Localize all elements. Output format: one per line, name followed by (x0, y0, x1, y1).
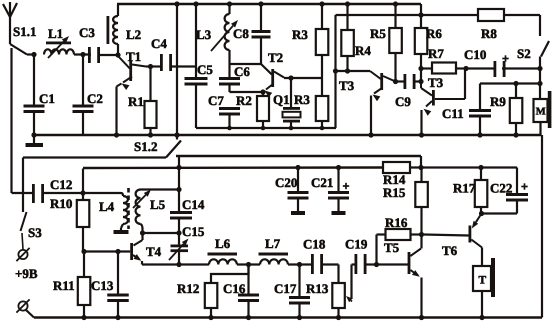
label L1 (48, 26, 63, 41)
capacitor C11 (469, 84, 491, 136)
label C15 (182, 224, 205, 239)
svg-text:C8: C8 (233, 26, 249, 41)
svg-text:Q1: Q1 (273, 92, 290, 107)
node R14/R15/rail A (418, 165, 423, 170)
capacitor C10 (polarized) (466, 55, 540, 77)
resistor R12 link (211, 265, 249, 284)
node C17 tap (297, 262, 302, 267)
wire C14 branch (178, 156, 180, 211)
node C15 bottom (176, 262, 181, 267)
capacitor C18 (311, 254, 339, 274)
svg-text:C18: C18 (303, 237, 326, 252)
svg-text:T: T (479, 275, 487, 287)
capacitor C14 (170, 211, 192, 233)
label C1 (39, 91, 55, 106)
svg-text:R16: R16 (385, 215, 408, 230)
wire bottom bus (34, 316, 542, 319)
label C6 (234, 64, 250, 79)
node T4 collector/L5 (140, 230, 145, 235)
label C4 (151, 36, 167, 51)
node supply/bus crossing (174, 132, 179, 137)
svg-text:M: M (536, 107, 546, 118)
wire rail B right (410, 166, 517, 168)
node C13 tap (115, 249, 120, 254)
svg-text:C9: C9 (395, 94, 411, 109)
resistor R8 (478, 9, 540, 36)
label C8 (233, 26, 249, 41)
inductor L1 (variable) (44, 36, 74, 58)
resistor R14 (383, 162, 410, 173)
transistor T2 (263, 69, 284, 97)
node R16 tap (374, 262, 379, 267)
label R6 (426, 26, 442, 41)
node T3b emitter on bus (419, 132, 424, 137)
node R10/R11 (81, 249, 86, 254)
resistor R13 (trimmer) (332, 265, 352, 318)
label R13 (306, 281, 329, 296)
label R9 (490, 94, 506, 109)
svg-text:C5: C5 (197, 62, 213, 77)
capacitor C12 (12, 184, 122, 203)
svg-text:L2: L2 (126, 27, 141, 42)
label Q1 (273, 92, 290, 107)
node R6/R7 (418, 66, 423, 71)
transistor T1 (117, 56, 147, 135)
node R3 top rail (319, 1, 324, 6)
svg-text:C20: C20 (275, 175, 297, 190)
switch S2 (541, 41, 549, 57)
svg-text:L4: L4 (99, 199, 115, 214)
wire oscillator rail B (83, 168, 383, 194)
label T2 (268, 50, 283, 65)
label T3 first (339, 78, 355, 93)
resistor R12 (205, 283, 218, 318)
label C14 (182, 197, 205, 212)
wire T3 second base (421, 82, 432, 96)
node C10 out (537, 66, 542, 71)
wire receiver supply vertical (174, 1, 179, 139)
label C17 (274, 281, 297, 296)
resistor R11 (78, 252, 91, 318)
node earphone bus (479, 315, 484, 320)
wire R13 wiper to C19 (352, 265, 358, 300)
svg-text:R7: R7 (428, 46, 444, 61)
svg-text:C6: C6 (234, 64, 250, 79)
resistor R16 (377, 229, 422, 265)
label +9B (15, 266, 38, 281)
capacitor C19 (355, 254, 409, 274)
node T3 collector / C9 (393, 79, 398, 84)
label R12 (177, 281, 199, 296)
inductor L7 (259, 253, 289, 265)
wire second rail (336, 15, 479, 128)
label C16 (223, 281, 246, 296)
svg-text:R2: R2 (236, 93, 252, 108)
label R1 (128, 94, 144, 109)
wire node to C14/C15 (143, 232, 180, 234)
svg-text:R5: R5 (370, 26, 386, 41)
resistor R1 (145, 67, 157, 136)
capacitor C20 (288, 168, 309, 216)
wire S1.1 alternate contact down to C12 (10, 48, 12, 193)
capacitor C13 (107, 252, 129, 318)
svg-text:T6: T6 (442, 243, 458, 258)
node ground bus left (31, 132, 36, 137)
node R1 on bus (148, 132, 153, 137)
label R17 (453, 181, 476, 196)
svg-text:L1: L1 (48, 26, 63, 41)
label L6 (215, 236, 231, 251)
node antenna/receiver input (31, 52, 36, 57)
capacitor C22 (polarized) (482, 168, 529, 214)
svg-text:S2: S2 (517, 46, 531, 61)
earphone T (473, 258, 495, 318)
node R13 bus (336, 315, 341, 320)
svg-text:T3: T3 (428, 75, 444, 90)
wire C6/C7 to T2 emitter link (230, 91, 264, 93)
svg-text:C1: C1 (39, 91, 55, 106)
svg-text:C11: C11 (442, 106, 464, 121)
node T5 collector/R15/R16 (419, 232, 424, 237)
transistor T3 (second) (422, 90, 466, 135)
label C10 (464, 47, 486, 62)
crystal Q1 (283, 78, 301, 128)
wire T4 base (84, 250, 130, 252)
svg-text:C12: C12 (50, 177, 72, 192)
svg-text:R8: R8 (481, 26, 497, 41)
node C9 / R6 / T3 base (418, 79, 423, 84)
capacitor C21 (polarized) (328, 168, 349, 216)
svg-text:R13: R13 (306, 281, 329, 296)
label R3 upper (292, 27, 308, 42)
label S3 (28, 225, 42, 240)
wire AF line (142, 263, 209, 265)
node R9 on bus (513, 132, 518, 137)
node C16 bus (246, 315, 251, 320)
capacitor C4 (160, 54, 196, 71)
node C20 tap (295, 165, 300, 170)
svg-text:C17: C17 (274, 281, 297, 296)
label R14 (383, 172, 406, 187)
node R17/C22 bottom (479, 211, 484, 216)
wire C5 branch from top rail (193, 1, 198, 77)
inductor L5 (variable) (133, 190, 179, 234)
resistor R4 (341, 1, 354, 71)
wire T2 collector (284, 77, 322, 79)
capacitor C15 (trimmer) (169, 233, 189, 265)
ground (upper bus) (26, 135, 44, 147)
terminal battery - (16, 299, 29, 312)
inductor L3 (variable) (211, 4, 238, 77)
wire upper ground bus (33, 134, 541, 137)
node R9 tap (513, 81, 518, 86)
capacitor C2 (73, 55, 94, 136)
inductor L4 (114, 193, 129, 234)
svg-text:C2: C2 (87, 91, 103, 106)
svg-text:C22: C22 (490, 181, 512, 196)
terminal battery + (16, 248, 29, 261)
svg-text:C19: C19 (345, 237, 368, 252)
inductor L6 (208, 253, 238, 265)
resistor R2 (257, 92, 269, 128)
resistor R15 (415, 168, 428, 235)
svg-text:T2: T2 (268, 50, 283, 65)
svg-text:S1.2: S1.2 (134, 139, 157, 154)
label C18 (303, 237, 326, 252)
svg-text:L5: L5 (150, 197, 166, 212)
node R4 base tap (345, 68, 350, 73)
node L3 top rail (227, 1, 232, 6)
label C5 (197, 62, 213, 77)
label L5 (150, 197, 166, 212)
node C14/C15 (176, 230, 181, 235)
label L4 (99, 199, 115, 214)
svg-text:+9B: +9B (15, 266, 38, 281)
svg-text:R12: R12 (177, 281, 199, 296)
wire L6-L7 (237, 263, 260, 265)
node C13 bus (115, 315, 120, 320)
svg-text:R17: R17 (453, 181, 476, 196)
svg-text:T1: T1 (126, 49, 141, 64)
node C8 top rail (258, 1, 263, 6)
node C17 bus (297, 315, 302, 320)
node T2 emitter (260, 89, 265, 94)
resistor R9 (510, 84, 523, 136)
label R2 (236, 93, 252, 108)
label T6 (442, 243, 458, 258)
resistor R5 (389, 1, 402, 81)
node R12 bus (208, 315, 213, 320)
label C19 (345, 237, 368, 252)
resistor R10 (77, 193, 90, 252)
svg-text:C7: C7 (208, 93, 224, 108)
svg-text:T3: T3 (339, 78, 355, 93)
antenna (3, 2, 17, 44)
node C11 on bus (477, 132, 482, 137)
label T4 (146, 244, 162, 259)
svg-text:L6: L6 (215, 236, 231, 251)
svg-text:C13: C13 (91, 278, 114, 293)
label M (536, 107, 546, 118)
label R15 (383, 185, 406, 200)
transistor T4 (130, 233, 142, 265)
label S2 (517, 46, 531, 61)
switch S1.1 arm (10, 44, 33, 55)
capacitor C7 (219, 107, 240, 128)
wire oscillator return (196, 126, 336, 131)
node L6/L7/R12/C16 (246, 262, 251, 267)
transformer core (127, 188, 130, 229)
capacitor C17 (289, 265, 310, 318)
label C3 (79, 25, 95, 40)
resistor R17 (475, 168, 488, 214)
capacitor C1 (24, 55, 45, 136)
svg-text:C14: C14 (182, 197, 205, 212)
transistor T3 (first) (371, 73, 396, 135)
node T5 emitter bus (419, 315, 424, 320)
transistor T5 (408, 235, 422, 318)
wire right border (541, 135, 543, 318)
wire T3 base (333, 68, 381, 79)
svg-text:L7: L7 (265, 236, 281, 251)
wire S2 to microphone (539, 57, 541, 100)
node R7/C10 (463, 66, 468, 71)
node L5 top tap (176, 187, 181, 192)
svg-text:C15: C15 (182, 224, 205, 239)
label C2 (87, 91, 103, 106)
node Q1 tap (288, 75, 293, 80)
svg-text:S1.1: S1.1 (13, 24, 36, 39)
resistor R3 (lower) (316, 96, 329, 128)
label S1.1 (13, 24, 36, 39)
wire +9V rail right (176, 156, 421, 167)
label T (479, 275, 487, 287)
node rail B tap (176, 165, 181, 170)
node C21 tap (336, 165, 341, 170)
svg-text:T4: T4 (146, 244, 162, 259)
svg-text:R3: R3 (292, 27, 308, 42)
wire +9V rail left (23, 156, 166, 158)
svg-text:R4: R4 (355, 43, 371, 58)
switch S3 (21, 158, 27, 250)
svg-text:R9: R9 (490, 94, 506, 109)
label C21 (311, 175, 333, 190)
label R3 lower (294, 92, 310, 107)
svg-text:R10: R10 (50, 196, 72, 211)
capacitor C5 (185, 77, 208, 128)
label R7 (428, 46, 444, 61)
capacitor C8 (252, 4, 271, 64)
svg-text:L3: L3 (196, 27, 212, 42)
label T5 (384, 240, 400, 255)
label L2 (126, 27, 141, 42)
svg-text:R15: R15 (383, 185, 406, 200)
resistor R7 (421, 63, 466, 74)
capacitor C16 (238, 265, 259, 318)
svg-text:C4: C4 (151, 36, 167, 51)
label S1.2 (134, 139, 157, 154)
switch S1.2 (166, 141, 181, 158)
svg-text:C16: C16 (223, 281, 246, 296)
node T1 emitter on bus (114, 132, 119, 137)
capacitor C3 (88, 47, 118, 63)
label R11 (53, 278, 75, 293)
wire T3b collector feedback (464, 69, 466, 100)
label C11 (442, 106, 464, 121)
svg-text:S3: S3 (28, 225, 42, 240)
resistor R6 (415, 4, 428, 82)
node mic top line (537, 81, 542, 86)
label R16 (385, 215, 408, 230)
node C2 tap (80, 52, 85, 57)
wire L3/C8 bottom link to T2 base (230, 64, 272, 75)
svg-text:R3: R3 (294, 92, 310, 107)
node T1 base/L2 (115, 52, 120, 57)
label C20 (275, 175, 297, 190)
label C22 (490, 181, 512, 196)
wire T1 collector (146, 65, 162, 67)
microphone M (534, 91, 552, 135)
label T3 second (428, 75, 444, 90)
transistor T6 (469, 214, 483, 267)
label L3 (196, 27, 212, 42)
label R10 (50, 196, 72, 211)
label C9 (395, 94, 411, 109)
svg-text:R11: R11 (53, 278, 75, 293)
svg-text:T5: T5 (384, 240, 400, 255)
svg-text:C3: C3 (79, 25, 95, 40)
capacitor C9 (396, 74, 422, 89)
svg-text:R6: R6 (426, 26, 442, 41)
label R4 (355, 43, 371, 58)
node R1 tap (148, 64, 153, 69)
wire terminal to bus (26, 310, 34, 318)
label C12 (50, 177, 72, 192)
svg-text:R1: R1 (128, 94, 144, 109)
label T1 (126, 49, 141, 64)
label R8 (481, 26, 497, 41)
inductor L2 with core (107, 4, 119, 55)
svg-text:C10: C10 (464, 47, 486, 62)
wire top rail (117, 3, 421, 6)
node C12/R10 (80, 190, 85, 195)
node R11 bus (81, 315, 86, 320)
svg-text:C21: C21 (311, 175, 333, 190)
wire C11/R9 top link (480, 82, 540, 84)
node R17 rail B (478, 165, 483, 170)
wire L7 out (288, 263, 314, 265)
wire T6 base (424, 235, 469, 236)
capacitor C6 (219, 77, 240, 92)
label R5 (370, 26, 386, 41)
resistor R3 (upper) (316, 4, 329, 96)
wire L1 to C3 (74, 53, 91, 55)
label C13 (91, 278, 114, 293)
label C7 (208, 93, 224, 108)
label L7 (265, 236, 281, 251)
node T3 emitter on bus (368, 132, 373, 137)
